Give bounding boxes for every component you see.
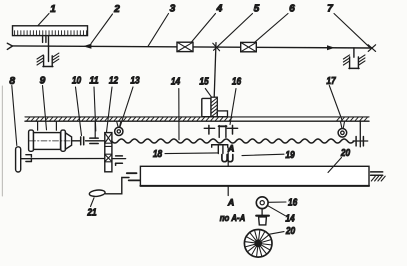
label 17 leader	[326, 76, 342, 120]
svg-text:20: 20	[285, 226, 295, 237]
label 10 leader	[72, 76, 82, 136]
svg-text:21: 21	[87, 208, 97, 219]
svg-text:6: 6	[289, 4, 295, 15]
section label 20 leader	[270, 226, 296, 237]
svg-text:5: 5	[254, 4, 260, 15]
section label 16 leader	[268, 197, 297, 208]
bearing support under nut	[37, 53, 59, 67]
overhead rail	[25, 117, 369, 121]
left shaft end fork	[7, 43, 12, 49]
svg-text:1: 1	[50, 4, 56, 15]
shaft nut under ruler	[43, 36, 49, 61]
scale ruler 1	[13, 26, 88, 36]
svg-text:10: 10	[72, 76, 82, 87]
label 14 leader	[171, 77, 181, 140]
svg-text:A: A	[227, 197, 234, 207]
label 12 leader	[107, 76, 119, 132]
right direction arrow	[327, 45, 335, 50]
pulley 17	[338, 121, 347, 137]
label 13 leader	[120, 76, 140, 127]
svg-text:2: 2	[113, 4, 120, 15]
motor shaft stub	[72, 140, 80, 142]
sheave 19	[228, 155, 233, 162]
label 16 leader	[230, 77, 241, 125]
svg-text:17: 17	[326, 76, 336, 87]
label 4 leader	[192, 4, 223, 43]
motor hangers	[38, 121, 57, 130]
section label 14 leader	[268, 206, 295, 225]
shaft line 2-3	[12, 46, 372, 48]
clutch 10	[81, 121, 105, 145]
svg-text:по А-А: по А-А	[220, 213, 246, 223]
label 20 leader	[328, 148, 350, 172]
hook hanger	[212, 145, 228, 154]
svg-text:11: 11	[89, 76, 99, 87]
coupling box 4	[177, 42, 193, 51]
section wheel 20	[244, 230, 272, 258]
beam right anchor	[371, 172, 386, 181]
left shaft bearing	[26, 155, 32, 162]
control wire 21	[105, 178, 129, 194]
svg-text:14: 14	[171, 77, 181, 88]
rope anchor	[353, 121, 368, 147]
label 21 leader	[87, 198, 97, 219]
rope 14 wavy line	[112, 139, 354, 143]
beam left link bars	[127, 173, 140, 180]
label 1 leader	[38, 4, 56, 25]
svg-text:16: 16	[232, 77, 242, 88]
section roller 16	[256, 197, 268, 209]
label 9 leader	[40, 75, 47, 130]
svg-text:12: 12	[109, 76, 119, 87]
node junction of rod 5	[214, 43, 216, 98]
motor 9	[29, 130, 72, 151]
sheave 18	[222, 155, 227, 162]
label 7 leader	[327, 4, 369, 48]
stop bracket 15	[202, 97, 228, 117]
label 19 leader	[242, 150, 295, 161]
section bucket 14	[256, 209, 269, 225]
svg-text:3: 3	[170, 4, 176, 15]
bearing support 7	[343, 48, 365, 69]
hand knob 8	[16, 147, 21, 172]
label 11 leader	[89, 76, 99, 131]
trolley 16	[204, 125, 238, 137]
svg-text:19: 19	[285, 150, 295, 161]
pulley 13	[115, 121, 123, 135]
svg-text:14: 14	[285, 213, 295, 224]
right shaft bearing	[112, 156, 126, 165]
label 3 leader	[148, 4, 176, 47]
section line A-A	[227, 148, 229, 196]
label 15 leader	[199, 77, 211, 97]
direction arrow on shaft	[83, 44, 91, 49]
svg-text:8: 8	[9, 76, 15, 87]
label 8 leader	[9, 76, 16, 146]
svg-text:18: 18	[153, 149, 163, 160]
pedal handle 21	[89, 189, 105, 197]
svg-text:9: 9	[40, 75, 46, 86]
label 5 leader	[213, 4, 260, 51]
gear drive 11-12	[105, 133, 112, 172]
label 6 leader	[255, 4, 296, 43]
label 18 leader	[153, 149, 218, 160]
shaft end crow-foot	[368, 45, 375, 52]
lower shaft	[18, 158, 105, 160]
svg-text:20: 20	[340, 148, 350, 159]
beam 20	[140, 166, 369, 186]
svg-text:15: 15	[199, 77, 209, 88]
label 2 leader	[91, 4, 120, 44]
svg-text:13: 13	[130, 76, 140, 87]
svg-text:16: 16	[288, 197, 298, 208]
svg-text:4: 4	[216, 4, 223, 15]
coupling box 6	[241, 42, 257, 51]
